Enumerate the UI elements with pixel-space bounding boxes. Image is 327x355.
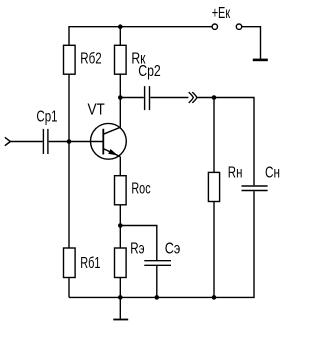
wire Rb1 to bottom rail — [68, 278, 70, 298]
resistor Rn — [208, 172, 219, 201]
node bottom rail Ce — [155, 295, 160, 300]
ground top — [253, 59, 268, 62]
wire emitter node to Re — [119, 226, 121, 249]
wire +Ek right terminal to ground — [242, 27, 261, 59]
resistor Rb2 — [64, 45, 76, 74]
wire emitter node to Ce — [120, 226, 157, 261]
svg-text:Rэ: Rэ — [130, 241, 144, 258]
capacitor Cp1 — [43, 129, 48, 154]
node base divider — [67, 139, 72, 144]
node emitter divider — [118, 223, 123, 228]
svg-text:Ср1: Ср1 — [36, 108, 57, 125]
resistor Roc — [115, 176, 127, 205]
wire Rk to collector node — [119, 74, 121, 97]
node top rail / Rk junction — [118, 24, 123, 29]
svg-text:Сн: Сн — [265, 165, 280, 182]
svg-text:VT: VT — [88, 101, 106, 118]
wire Cp1 to base node — [49, 141, 69, 143]
wire collector node to Cp2 — [120, 97, 144, 99]
svg-text:Ср2: Ср2 — [138, 63, 161, 80]
transistor VT — [91, 123, 127, 159]
wire top rail — [69, 27, 212, 46]
wire connector to output node — [197, 97, 214, 99]
connector output chevrons — [189, 92, 197, 103]
wire base node to Rb1 — [68, 142, 70, 249]
wire Roc to emitter node — [119, 205, 121, 226]
wire collector of VT — [119, 98, 121, 128]
wire Re to bottom rail — [119, 278, 121, 298]
wire Rk top — [119, 27, 121, 46]
capacitor Cp2 — [145, 86, 150, 110]
wire Cp2 to connector — [150, 97, 188, 99]
ground bottom — [113, 319, 128, 321]
wire ground stub bottom — [119, 297, 121, 318]
input terminal chevron — [5, 137, 11, 145]
svg-text:Rн: Rн — [228, 165, 243, 182]
wire Rb2 to base node — [68, 74, 70, 141]
wire emitter of VT to Roc — [119, 157, 121, 176]
resistor Rb1 — [64, 248, 76, 278]
wire input to Cp1 — [10, 141, 42, 143]
svg-text:+Ек: +Ек — [212, 5, 231, 22]
wire Ce to bottom rail — [156, 266, 158, 297]
terminal +Ek left — [212, 24, 217, 29]
capacitor Ce — [144, 261, 171, 266]
svg-text:Сэ: Сэ — [165, 241, 181, 258]
node output — [212, 95, 217, 100]
wire Cn to bottom rail — [69, 191, 254, 297]
resistor Rk — [115, 45, 127, 74]
svg-text:Rос: Rос — [131, 180, 150, 197]
wire base node to transistor base — [69, 141, 103, 143]
resistor Re — [115, 248, 127, 278]
node bottom rail Rn — [212, 295, 217, 300]
wire output node to Cn column — [214, 98, 254, 186]
node bottom rail ground — [118, 295, 123, 300]
terminal +Ek right — [236, 24, 241, 29]
wire Rn to bottom rail — [213, 202, 215, 298]
capacitor Cn — [242, 186, 268, 191]
svg-text:Rб1: Rб1 — [80, 255, 100, 272]
node collector — [118, 95, 123, 100]
svg-text:Rб2: Rб2 — [80, 50, 101, 67]
wire output node to Rn — [213, 98, 215, 173]
